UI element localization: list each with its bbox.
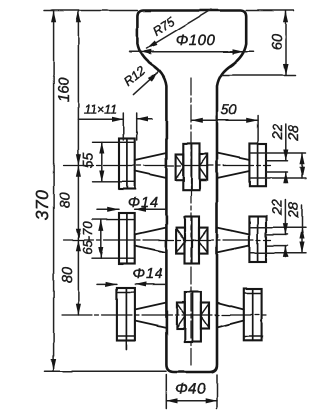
row 1 right boss bbox=[249, 144, 266, 187]
svg-text:65-70: 65-70 bbox=[80, 221, 95, 255]
R75 leader bbox=[147, 10, 212, 49]
part outline: head, shaft, bottom bbox=[137, 11, 246, 373]
dim 55 line bbox=[101, 142, 103, 182]
svg-text:Φ40: Φ40 bbox=[175, 381, 206, 398]
dim 370 line bbox=[53, 11, 55, 370]
row 2 left boss cap lines / 65-70 extension lines bbox=[92, 220, 135, 259]
vertical center line of shaft bbox=[190, 78, 192, 368]
svg-text:80: 80 bbox=[58, 192, 74, 208]
svg-text:22: 22 bbox=[269, 124, 285, 141]
row 3 left boss bbox=[117, 288, 135, 350]
row 1 hub bbox=[176, 143, 208, 190]
row 3 right boss bbox=[244, 289, 262, 341]
row 3 left boss cap lines bbox=[117, 293, 135, 337]
row 3 right boss cap lines bbox=[244, 293, 262, 336]
row 2 tapered arms bbox=[135, 228, 250, 253]
dim phi100 line bbox=[140, 51, 244, 53]
dim 28 row1 line bbox=[301, 153, 303, 178]
svg-text:80: 80 bbox=[60, 267, 76, 283]
row 2 left boss bbox=[119, 213, 135, 264]
dim phi40 line bbox=[166, 400, 217, 402]
svg-text:Φ14: Φ14 bbox=[128, 195, 159, 211]
dim 80 lower line bbox=[77, 240, 79, 315]
dim 65-70 line bbox=[100, 220, 102, 259]
row 3 tapered arms bbox=[135, 303, 244, 328]
dim 50 line and right extension bbox=[192, 119, 258, 121]
row 3 hub bbox=[177, 292, 209, 342]
row2 22/28 extension lines bbox=[250, 227, 306, 253]
row 3 axis center line bbox=[62, 314, 266, 316]
svg-text:160: 160 bbox=[56, 76, 73, 102]
dim phi40 extension lines bbox=[166, 375, 217, 409]
top extension line bbox=[44, 10, 294, 12]
row 1 tapered arms bbox=[135, 153, 250, 178]
svg-text:370: 370 bbox=[32, 190, 52, 221]
svg-text:R75: R75 bbox=[150, 15, 177, 39]
dim 22 row2 arrows bbox=[284, 200, 286, 235]
row 1 left boss cap lines / 55 extension lines bbox=[93, 142, 135, 182]
dim phi14 row3 arrows bbox=[97, 283, 117, 285]
dim 22 row1 arrows bbox=[285, 124, 287, 161]
svg-text:Φ100: Φ100 bbox=[176, 32, 216, 49]
dimensions bbox=[44, 10, 306, 409]
bottom extension line for 370 bbox=[45, 370, 167, 372]
svg-text:60: 60 bbox=[270, 34, 286, 50]
svg-text:28: 28 bbox=[285, 125, 301, 142]
svg-text:22: 22 bbox=[269, 199, 285, 216]
row1 22/28 extension lines bbox=[250, 153, 306, 178]
svg-text:Φ14: Φ14 bbox=[132, 267, 163, 283]
dim 80 upper line bbox=[77, 166, 79, 241]
svg-text:55: 55 bbox=[80, 153, 96, 169]
row 2 axis center line bbox=[64, 239, 271, 241]
dim 28 row2 line bbox=[301, 227, 303, 253]
svg-text:28: 28 bbox=[285, 202, 301, 219]
row 1 left boss bbox=[119, 139, 135, 190]
row 1 axis center line bbox=[64, 165, 271, 167]
svg-text:50: 50 bbox=[221, 102, 237, 118]
dim 60: bottom extension and line bbox=[222, 74, 296, 76]
R12 leader bbox=[133, 72, 158, 94]
dim 160 line bbox=[77, 11, 79, 166]
svg-text:11×11: 11×11 bbox=[84, 103, 117, 117]
row 2 right boss bbox=[249, 216, 266, 262]
dim 11x11 arrows and extension lines bbox=[78, 118, 123, 120]
dim phi14 row2 arrows bbox=[98, 208, 120, 210]
row 2 hub bbox=[176, 217, 207, 264]
